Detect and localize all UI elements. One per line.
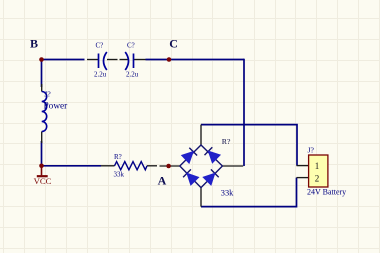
capacitor C? #2 plates <box>125 52 133 70</box>
svg-text:C: C <box>169 36 178 50</box>
junction VCC <box>39 164 44 169</box>
capacitor C? pins (both caps) <box>87 59 146 61</box>
resistor R? pins <box>101 165 157 167</box>
bridge diode D-topleft <box>182 148 197 164</box>
svg-text:33k: 33k <box>114 171 125 179</box>
svg-text:2.2u: 2.2u <box>126 71 139 79</box>
bridge diamond <box>180 145 223 188</box>
svg-text:A: A <box>158 174 167 188</box>
bridge diode D-topright <box>205 147 221 163</box>
bridge diode D-botright <box>203 169 219 185</box>
battery connector J? body <box>309 155 328 187</box>
svg-text:J?: J? <box>308 145 315 154</box>
wire bridge bottom to battery pin2 <box>201 178 297 207</box>
bridge diode D-botleft <box>183 169 199 185</box>
wire VCC to resistor <box>42 165 102 167</box>
wire B down to L1 <box>41 60 43 88</box>
inductor J? pins <box>41 84 43 143</box>
wire bridge top to battery pin1 <box>201 125 297 166</box>
power port VCC <box>37 166 48 176</box>
svg-text:Power: Power <box>44 102 69 112</box>
junction B <box>39 57 44 62</box>
svg-text:VCC: VCC <box>34 176 52 186</box>
svg-text:2.2u: 2.2u <box>94 71 107 79</box>
inductor J? coil <box>42 92 47 132</box>
svg-text:2: 2 <box>315 174 320 184</box>
svg-text:B: B <box>30 36 38 50</box>
battery connector J? pins <box>297 166 309 178</box>
svg-text:R?: R? <box>222 137 231 146</box>
wire B to C1 <box>42 59 85 61</box>
svg-text:J?: J? <box>44 90 51 99</box>
junction C <box>167 57 172 62</box>
wire C2 to corner <box>146 59 245 61</box>
junction A <box>166 164 171 169</box>
wire corner down to bridge right pin <box>243 59 245 166</box>
svg-text:C?: C? <box>127 42 135 50</box>
capacitor C? #1 plates <box>99 52 107 70</box>
wire L1 to VCC junction <box>41 141 43 166</box>
bridge pins <box>160 125 244 207</box>
svg-text:33k: 33k <box>221 188 234 197</box>
svg-text:R?: R? <box>114 153 122 161</box>
resistor R? zigzag <box>115 162 148 170</box>
svg-text:C?: C? <box>96 42 104 50</box>
svg-text:1: 1 <box>315 161 320 171</box>
svg-text:24V Battery: 24V Battery <box>307 187 346 196</box>
